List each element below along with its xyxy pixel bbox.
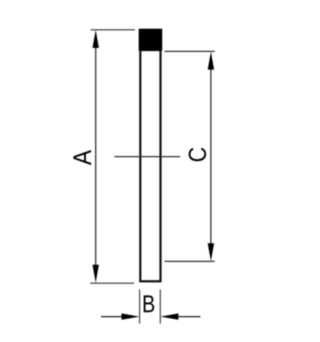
arrowhead A bottom	[93, 265, 99, 283]
extension line C bottom	[165, 260, 215, 262]
dimension line B right	[177, 316, 200, 318]
centerline	[114, 156, 180, 158]
arrowhead C top	[208, 52, 214, 70]
extension line C top	[165, 50, 215, 52]
extension line B right	[159, 290, 161, 324]
part body (sleeve tube outline)	[140, 50, 160, 281]
arrowhead C bottom	[208, 243, 214, 261]
extension line A top	[91, 29, 135, 31]
dimension line A	[95, 46, 97, 266]
label C	[189, 148, 207, 161]
label B	[144, 295, 154, 312]
arrowhead B left	[122, 313, 140, 319]
arrowhead A top	[93, 30, 99, 48]
dimension line C	[210, 68, 212, 245]
dimension line B left	[101, 316, 123, 318]
extension line B left	[139, 290, 141, 324]
cap (filled head)	[139, 29, 163, 51]
extension line A bottom	[90, 282, 134, 284]
arrowhead B right	[160, 313, 178, 319]
label A	[73, 150, 91, 165]
